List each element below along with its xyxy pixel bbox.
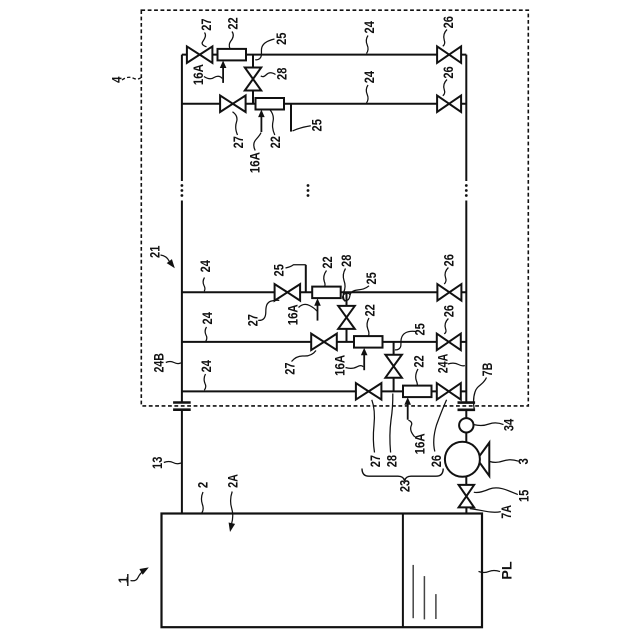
leader 27 row5dn — [372, 400, 375, 453]
gas arrow 16A row1 — [220, 61, 227, 83]
svg-text:25: 25 — [412, 323, 428, 335]
tank 2 — [162, 514, 483, 628]
svg-text:24: 24 — [197, 260, 213, 272]
svg-text:24: 24 — [361, 71, 377, 83]
svg-text:13: 13 — [149, 456, 165, 468]
label 7A — [498, 505, 514, 519]
label 24A — [435, 354, 451, 374]
pipe 24 row1 — [182, 54, 466, 56]
svg-text:7B: 7B — [479, 363, 495, 377]
arrow 1 — [131, 567, 149, 580]
leader 16A row5dn — [408, 420, 414, 437]
svg-text:24: 24 — [199, 312, 215, 324]
leader 24 row2 — [366, 85, 368, 103]
brace 23 — [362, 469, 443, 481]
svg-text:26: 26 — [441, 254, 457, 266]
leader 13 — [164, 462, 181, 464]
valve 27 row3 — [275, 284, 301, 301]
pipe flange-to-gauge — [465, 410, 467, 419]
leader 25 row2 — [293, 126, 311, 131]
svg-text:24B: 24B — [151, 353, 167, 373]
svg-text:22: 22 — [411, 355, 427, 367]
label PL — [499, 561, 515, 580]
svg-text:25: 25 — [363, 272, 379, 284]
label 13 — [149, 456, 165, 468]
label 22 — [225, 17, 241, 29]
svg-text:28: 28 — [273, 67, 289, 79]
connection pipe 25 row1-2 — [252, 55, 254, 104]
valve 26 row1 — [437, 46, 461, 63]
svg-text:4: 4 — [108, 76, 124, 82]
label 25 — [363, 272, 379, 284]
leader 7B — [474, 378, 487, 410]
label 27 — [245, 314, 261, 326]
label 26 — [440, 16, 456, 28]
label 1 — [115, 577, 131, 583]
label 24 — [361, 21, 377, 33]
label 28 — [383, 455, 399, 467]
svg-text:16A: 16A — [331, 355, 347, 376]
valve 26 row4 — [437, 334, 461, 351]
label 22 — [319, 256, 335, 268]
label 16A — [247, 152, 263, 173]
label 3 — [515, 458, 531, 464]
svg-text:26: 26 — [440, 66, 456, 78]
tank divider wall — [402, 514, 404, 628]
label 27 — [367, 455, 383, 467]
leader 24A — [448, 363, 465, 366]
label 24 — [361, 71, 377, 83]
valve 28 #3 — [385, 355, 402, 378]
leader 24 row5 — [204, 374, 206, 390]
label 2 — [195, 482, 211, 488]
label 25 — [309, 119, 325, 131]
svg-text:27: 27 — [198, 18, 214, 30]
label 26 — [440, 66, 456, 78]
label 16A — [331, 355, 347, 376]
label 25 — [412, 323, 428, 335]
svg-text:22: 22 — [319, 256, 335, 268]
svg-text:2A: 2A — [224, 474, 240, 488]
leader 22 row2 — [270, 110, 275, 135]
flange right 7B — [458, 403, 476, 410]
leader 22 row5 — [416, 369, 418, 386]
pipe pump-to-valve15 — [465, 477, 467, 486]
leader 26 row2 — [443, 80, 447, 96]
leader 27 row4 — [292, 351, 317, 362]
leader 26 row4 — [444, 319, 448, 334]
leader 24 row3 — [203, 278, 205, 292]
label 25 — [273, 32, 289, 44]
ellipsis omitted branch pipes — [307, 184, 310, 197]
leader 28 row1 — [261, 73, 276, 77]
leader 25 row1 — [255, 39, 274, 60]
svg-text:1: 1 — [115, 577, 131, 583]
pipe gauge-to-pump — [465, 433, 467, 443]
flow controller 22 row4 — [354, 336, 383, 348]
pipe 24B left header — [181, 55, 183, 403]
label 27 — [198, 18, 214, 30]
svg-text:22: 22 — [225, 17, 241, 29]
flow controller 22 row3 — [312, 287, 341, 299]
flow controller 22 row2 — [256, 98, 285, 110]
label 25 — [270, 264, 286, 276]
svg-text:16A: 16A — [247, 152, 263, 173]
leader 16A row1 — [204, 76, 222, 79]
gas arrow 16A row3 — [314, 298, 321, 320]
svg-text:27: 27 — [282, 362, 298, 374]
valve 28 #2 — [338, 306, 355, 329]
leader 26 row5dn — [434, 400, 447, 452]
pipe 24 row4 — [182, 341, 466, 343]
svg-text:23: 23 — [397, 480, 413, 492]
leader 27 row1 — [202, 33, 206, 47]
pipe 24A right header — [465, 55, 467, 403]
liquid level hatch PL — [413, 565, 436, 620]
valve 15 — [459, 485, 475, 508]
flow controller 22 row5 — [403, 386, 432, 398]
arrow 2A — [229, 492, 236, 533]
label 22 — [411, 355, 427, 367]
svg-text:34: 34 — [501, 419, 517, 431]
arrow 21 — [161, 255, 175, 268]
leader 16A row3 — [299, 304, 317, 311]
svg-text:24: 24 — [198, 360, 214, 372]
label 26 — [441, 305, 457, 317]
label 28 — [273, 67, 289, 79]
svg-text:25: 25 — [270, 264, 286, 276]
gas arrow 16A row4 — [361, 348, 368, 370]
leader 25 row3br — [343, 286, 369, 301]
svg-text:16A: 16A — [411, 433, 427, 454]
leader 24 row4 — [205, 327, 207, 341]
leader 15 — [474, 488, 518, 495]
pipe 24 row5 — [182, 390, 466, 392]
svg-text:7A: 7A — [498, 505, 514, 519]
svg-text:28: 28 — [338, 254, 354, 266]
pipe break dots left header — [181, 184, 184, 197]
leader 24 row1 — [366, 36, 368, 54]
flange left 7-ish — [173, 403, 191, 410]
leader PL — [479, 570, 501, 572]
label 16A — [285, 304, 301, 325]
label 28 — [338, 254, 354, 266]
svg-text:27: 27 — [245, 314, 261, 326]
svg-text:22: 22 — [267, 136, 283, 148]
label 2A — [224, 474, 240, 488]
leader 27 row2 — [233, 112, 238, 135]
svg-text:24A: 24A — [435, 354, 451, 374]
connection pipe 25 row4-5 — [393, 342, 395, 392]
valve 28 #1 — [245, 68, 261, 91]
label 16A — [190, 64, 206, 85]
valve 26 row2 — [437, 96, 461, 113]
pump 3 — [445, 442, 489, 477]
label 27 — [230, 136, 246, 148]
underline of label 1 — [127, 574, 129, 586]
label 15 — [516, 490, 532, 502]
pipe valve15-to-tank 7A — [465, 507, 467, 513]
svg-text:26: 26 — [441, 305, 457, 317]
valve 26 row3 — [437, 284, 461, 301]
svg-text:16A: 16A — [190, 64, 206, 85]
label 27 — [282, 362, 298, 374]
label 21 — [147, 245, 163, 257]
svg-text:3: 3 — [515, 458, 531, 464]
leader 25 row3stub — [286, 265, 306, 268]
label 16A — [411, 433, 427, 454]
connection pipe 25 row3-4 — [346, 292, 348, 342]
svg-text:16A: 16A — [285, 304, 301, 325]
stub pipe 25 row3 — [305, 265, 307, 293]
svg-text:26: 26 — [428, 455, 444, 467]
svg-text:15: 15 — [516, 490, 532, 502]
svg-text:21: 21 — [147, 245, 163, 257]
svg-text:26: 26 — [440, 16, 456, 28]
leader 26 row1 — [443, 30, 447, 47]
valve 27 row5 — [356, 383, 382, 400]
leader 3 — [490, 460, 519, 463]
gas arrow 16A row5 — [404, 397, 411, 419]
label 26 — [441, 254, 457, 266]
leader 2 — [201, 492, 203, 513]
label 22 — [361, 304, 377, 316]
leader 16A row2 — [254, 133, 261, 151]
leader 34 — [474, 423, 504, 426]
leader 16A row4 — [346, 366, 364, 369]
label 7B — [479, 363, 495, 377]
svg-text:27: 27 — [230, 136, 246, 148]
svg-text:27: 27 — [367, 455, 383, 467]
pipe 13 vertical — [181, 410, 183, 514]
leader 26 row3 — [444, 268, 448, 285]
leader 4 — [122, 77, 141, 80]
label 24 — [198, 360, 214, 372]
pipe break dots right header — [465, 184, 468, 197]
svg-text:PL: PL — [499, 561, 515, 580]
enclosure dashed box 4 — [141, 10, 528, 406]
leader 24B — [166, 362, 181, 364]
leader 28 row3 — [343, 269, 345, 302]
valve 26 row5 — [437, 383, 461, 400]
label 24B — [151, 353, 167, 373]
svg-text:28: 28 — [383, 455, 399, 467]
label 23 — [397, 480, 413, 492]
label 26 — [428, 455, 444, 467]
svg-text:24: 24 — [361, 21, 377, 33]
svg-text:25: 25 — [273, 32, 289, 44]
leader 22 row1 — [229, 32, 233, 49]
svg-text:25: 25 — [309, 119, 325, 131]
stub pipe 25 row2 — [290, 104, 292, 132]
label 34 — [501, 419, 517, 431]
label 4 — [108, 76, 124, 82]
valve 27 row1 — [187, 46, 213, 63]
leader 28 row5dn — [390, 394, 393, 453]
label 24 — [199, 312, 215, 324]
label 22 — [267, 136, 283, 148]
leader 22 row4 — [367, 318, 369, 336]
svg-text:2: 2 — [195, 482, 211, 488]
pipe 24 row2 — [182, 103, 466, 105]
pipe 24 row3 — [182, 291, 466, 293]
label 24 — [197, 260, 213, 272]
leader 7A — [470, 509, 501, 513]
valve 27 row4 — [311, 334, 337, 351]
flow controller 22 row1 — [218, 49, 247, 61]
svg-text:22: 22 — [361, 304, 377, 316]
gas arrow 16A row2 — [258, 110, 265, 132]
leader 25 row4 — [395, 331, 417, 350]
leader 27 row3 — [258, 300, 279, 320]
valve 27 row2 — [220, 96, 246, 113]
leader 22 row3 — [324, 271, 327, 288]
gauge 34 — [459, 418, 473, 432]
